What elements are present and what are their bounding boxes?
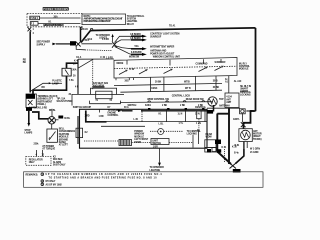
- svg-text:1: 1: [33, 29, 35, 31]
- svg-text:MOTOR: MOTOR: [253, 133, 262, 136]
- switch S4: [199, 67, 208, 72]
- module top line: [120, 90, 222, 92]
- wire main bus top: [91, 28, 256, 31]
- svg-text:A1: A1: [225, 81, 229, 84]
- svg-text:PANEL): PANEL): [38, 103, 46, 106]
- svg-text:TOP: TOP: [219, 99, 224, 101]
- svg-text:220k: 220k: [34, 143, 40, 145]
- svg-text:RELAY: RELAY: [127, 23, 135, 26]
- svg-text:CENTRAL LOCK: CENTRAL LOCK: [172, 95, 191, 98]
- svg-text:COMMAND: COMMAND: [196, 62, 208, 65]
- svg-text:K1/2: K1/2: [88, 39, 93, 41]
- svg-text:C 40: C 40: [100, 56, 105, 59]
- connector housing (hat): [92, 86, 104, 88]
- svg-text:WDW: WDW: [206, 136, 213, 139]
- wire down from junction: [51, 124, 53, 129]
- svg-text:SWITCH: SWITCH: [152, 143, 161, 145]
- svg-text:SUNROOF: SUNROOF: [215, 62, 227, 64]
- svg-text:K 81: K 81: [222, 147, 227, 149]
- svg-text:WINDOW: WINDOW: [134, 134, 145, 136]
- svg-text:LOCKING: LOCKING: [240, 94, 251, 97]
- svg-text:30: 30: [73, 76, 76, 78]
- svg-text:INSTRUMENT: INSTRUMENT: [38, 101, 53, 103]
- svg-text:AS OF MY 1992: AS OF MY 1992: [46, 183, 63, 186]
- svg-text:4 R: 4 R: [75, 85, 79, 88]
- motor M2 circle: [241, 130, 251, 140]
- svg-text:B 4x: B 4x: [234, 152, 239, 155]
- svg-text:K26 SEAT ADJ: K26 SEAT ADJ: [93, 82, 109, 85]
- svg-text:30A: 30A: [72, 69, 77, 72]
- connector X2 (left of dashed box): [28, 27, 32, 31]
- hatched box: [119, 140, 132, 146]
- svg-text:MODULE: MODULE: [134, 136, 144, 138]
- svg-text:30A: 30A: [54, 15, 58, 18]
- svg-text:4 154: 4 154: [226, 96, 232, 99]
- right bus elbow down: [244, 111, 256, 129]
- svg-text:K 30: K 30: [232, 147, 237, 149]
- dashed interior line: [114, 66, 237, 68]
- small connector box with circle: [240, 109, 246, 114]
- wire fuse output down: [80, 27, 82, 42]
- wire to relay box: [78, 58, 114, 60]
- svg-text:LAMP: LAMP: [52, 82, 59, 85]
- black connector blob: [207, 110, 213, 114]
- down arrow to interior lighting: [159, 148, 161, 162]
- svg-text:L 30: L 30: [134, 119, 139, 121]
- svg-text:MODE: MODE: [117, 63, 124, 65]
- main module box: [80, 109, 208, 148]
- svg-text:W/O SEC: W/O SEC: [53, 159, 63, 161]
- svg-text:PLASTIC: PLASTIC: [52, 80, 62, 83]
- relay module N box (upper middle): [114, 58, 237, 79]
- svg-text:K 30: K 30: [130, 69, 135, 71]
- svg-text:#1 GRN: #1 GRN: [250, 151, 259, 154]
- svg-text:4x: 4x: [225, 78, 228, 81]
- svg-text:POWER WINDOWS: POWER WINDOWS: [43, 7, 68, 11]
- svg-text:0.8 BK/RD: 0.8 BK/RD: [130, 38, 141, 40]
- arrowhead down: [27, 123, 30, 127]
- remark ref circle 1: [90, 28, 92, 30]
- wire diagonal join: [78, 59, 93, 68]
- svg-text:K26/3: K26/3: [151, 88, 158, 90]
- svg-text:BK: BK: [23, 62, 27, 64]
- remark 3: [41, 183, 44, 186]
- svg-text:1 YL: 1 YL: [179, 123, 184, 125]
- wire right bus: [255, 28, 257, 111]
- wire X1 to fan node: [81, 43, 112, 45]
- dashed to lamp: [150, 130, 158, 132]
- left motor branch: [77, 116, 79, 144]
- wire down to X: [241, 114, 243, 122]
- connector X on wire: [241, 122, 246, 127]
- svg-text:L BL: L BL: [159, 124, 165, 126]
- svg-text:K1 A: K1 A: [76, 56, 81, 59]
- remarks box: [24, 172, 263, 188]
- svg-text:TO STARTING AND A BRANCH AND F: TO STARTING AND A BRANCH AND FUSE ENTERI…: [49, 176, 158, 179]
- svg-text:OVERVOLTAGE PROTECTION RELAY: OVERVOLTAGE PROTECTION RELAY: [43, 24, 65, 27]
- svg-text:WT/B: WT/B: [184, 81, 190, 83]
- svg-text:COURTESY LIGHT SYSTEM: COURTESY LIGHT SYSTEM: [150, 33, 179, 35]
- wire fan ray 1: [115, 36, 132, 42]
- svg-text:7.5A: 7.5A: [69, 79, 74, 82]
- wire fuse F3 down: [33, 76, 67, 94]
- svg-text:(BEHIND LEFT: (BEHIND LEFT: [38, 99, 54, 101]
- relay K2 box: [47, 129, 58, 142]
- svg-text:LOCKING: LOCKING: [187, 134, 198, 136]
- wire branch to fuse F3: [67, 63, 79, 68]
- lamp circle: [158, 129, 164, 135]
- svg-text:30 BK: 30 BK: [155, 82, 162, 84]
- svg-text:0.8 BK/RD: 0.8 BK/RD: [131, 52, 142, 54]
- connector X in block: [28, 100, 33, 105]
- notes box: [82, 14, 126, 24]
- svg-text:FUSE 1: FUSE 1: [30, 18, 39, 20]
- dividers: [141, 109, 143, 121]
- small box on branch: [76, 128, 83, 137]
- svg-text:LIMIT: LIMIT: [152, 140, 158, 142]
- svg-text:TIP: 15A: TIP: 15A: [57, 98, 66, 101]
- svg-text:2 BK: 2 BK: [162, 105, 167, 107]
- bus line mid: [114, 83, 222, 85]
- svg-text:1L N: 1L N: [178, 114, 183, 116]
- svg-text:2 BK: 2 BK: [180, 105, 185, 107]
- terminal 30 black box: [70, 41, 76, 45]
- arrowhead up: [111, 34, 113, 37]
- svg-text:30 BK: 30 BK: [213, 87, 220, 89]
- right extension line: [207, 107, 240, 109]
- svg-text:TO ELECTRICAL: TO ELECTRICAL: [127, 15, 145, 18]
- svg-text:CONTROL: CONTROL: [108, 115, 120, 117]
- svg-text:LAMPS: LAMPS: [25, 132, 33, 135]
- svg-text:RD BL: RD BL: [49, 110, 56, 112]
- wire diagonal from trunk: [30, 83, 49, 91]
- svg-text:WINDOW CONTROL UNIT: WINDOW CONTROL UNIT: [153, 57, 181, 59]
- terminal block X30: [26, 94, 36, 108]
- svg-text:POWER SEAT ADJUST: POWER SEAT ADJUST: [150, 53, 175, 56]
- pin stubs row2: [150, 85, 152, 92]
- svg-text:GN/YL: GN/YL: [233, 119, 240, 121]
- connector fan node X: [112, 42, 117, 48]
- svg-text:1 RD: 1 RD: [85, 116, 90, 118]
- pin stubs below module: [133, 78, 135, 80]
- ground point connector: [230, 163, 237, 169]
- svg-text:STOP: STOP: [25, 130, 32, 132]
- thick feed down into module: [86, 111, 107, 122]
- svg-text:CONVENIENCE: CONVENIENCE: [59, 131, 76, 133]
- svg-text:30G: 30G: [125, 81, 129, 83]
- svg-text:AT POWER: AT POWER: [42, 145, 54, 148]
- wire branch arrow left (backup lamps): [52, 82, 63, 84]
- wire up from junction: [51, 109, 53, 117]
- svg-text:REAR DOOR SW: REAR DOOR SW: [186, 98, 205, 101]
- svg-text:NOTE:: NOTE:: [84, 15, 91, 18]
- svg-text:1 BR: 1 BR: [153, 147, 158, 149]
- antenna motor box: [239, 129, 252, 142]
- pin stubs: [36, 150, 38, 157]
- svg-text:MY ONLY: MY ONLY: [46, 181, 56, 183]
- switch S5: [215, 66, 224, 71]
- svg-text:TO INTERIOR: TO INTERIOR: [96, 35, 111, 37]
- svg-text:W 1 GRN: W 1 GRN: [250, 148, 260, 151]
- connector bumps: [148, 101, 151, 102]
- svg-text:A WITH POWER WINDOW AND DOOR: A WITH POWER WINDOW AND DOOR LOCK UNIT: [84, 18, 124, 21]
- dashed bottom lines: [84, 140, 119, 142]
- svg-text:ANTENNA AND: ANTENNA AND: [150, 49, 167, 52]
- svg-text:AT LEFT: AT LEFT: [59, 144, 69, 147]
- svg-text:LIGHTS: LIGHTS: [99, 38, 108, 40]
- svg-text:SUNROOF: SUNROOF: [150, 37, 162, 39]
- dashed vertical: [92, 59, 94, 89]
- antenna amplifier box: [225, 93, 239, 108]
- svg-text:WDW CONTROL SW: WDW CONTROL SW: [147, 99, 169, 101]
- arrow 2: [131, 39, 142, 41]
- wire down to stop lamps: [28, 111, 30, 123]
- node K1/4 marker: [81, 28, 83, 30]
- svg-text:CONTROL: CONTROL: [239, 66, 251, 68]
- svg-text:K2: K2: [53, 157, 57, 159]
- wire to circuit 15 with left arrow: [56, 43, 70, 45]
- pins on module top: [148, 108, 150, 110]
- svg-text:AMP: AMP: [226, 101, 231, 104]
- svg-text:ANT: ANT: [226, 98, 231, 101]
- wire feed left column: [77, 59, 79, 94]
- svg-text:REGULATOR: REGULATOR: [29, 159, 43, 162]
- svg-text:MODULE: MODULE: [59, 137, 69, 139]
- tick: [99, 109, 101, 112]
- fuse F3 box: [62, 68, 71, 76]
- switch S3: [164, 69, 173, 74]
- svg-text:ML RLY IN: ML RLY IN: [240, 86, 251, 88]
- arrow 4: [131, 53, 142, 55]
- dashed stub right of module: [224, 149, 226, 162]
- svg-text:ML RLY: ML RLY: [239, 63, 248, 65]
- fuse f1 box: [30, 16, 40, 20]
- remark 2: [41, 180, 44, 183]
- wire fuse row1: [40, 17, 81, 19]
- wire bus under central lock: [120, 101, 213, 104]
- svg-text:1 RD: 1 RD: [99, 116, 104, 118]
- svg-text:K1: K1: [159, 114, 163, 116]
- inner horizontal line: [95, 121, 207, 123]
- switch S2: [139, 70, 148, 75]
- svg-text:K1/4: K1/4: [83, 28, 88, 31]
- svg-text:FEATURE: FEATURE: [59, 133, 70, 136]
- svg-text:TRUNK): TRUNK): [253, 139, 262, 141]
- svg-text:22 N: 22 N: [195, 113, 200, 115]
- svg-text:K7: K7: [108, 107, 112, 109]
- svg-text:WT B: WT B: [185, 88, 191, 90]
- wire fan ray 3: [115, 46, 132, 49]
- feed arrow inside module: [118, 110, 122, 112]
- fuse f2 box: [30, 22, 38, 26]
- svg-text:SWITCH: SWITCH: [128, 105, 137, 107]
- svg-text:UP TO CHASSIS END NUMBERS 1B 2: UP TO CHASSIS END NUMBERS 1B 223825 AND …: [46, 173, 163, 176]
- wire main bus diagonal: [81, 31, 91, 43]
- svg-text:AL A10: AL A10: [234, 80, 242, 83]
- svg-text:SUBT ONLY: SUBT ONLY: [53, 165, 66, 167]
- svg-text:1.5 RD: 1.5 RD: [106, 57, 113, 59]
- regulator dashed box: [26, 157, 51, 166]
- wires below motor: [243, 142, 245, 150]
- wire fan ray 2: [115, 40, 132, 44]
- ground label black: [233, 169, 241, 173]
- svg-text:SEE POWER: SEE POWER: [37, 42, 51, 44]
- svg-text:RD/GN: RD/GN: [247, 110, 255, 113]
- svg-text:B WITH CENTRAL LOCKING PUMP: B WITH CENTRAL LOCKING PUMP: [84, 20, 112, 23]
- fuse box F1 dashed enclosure: [27, 14, 82, 27]
- svg-text:50A: 50A: [135, 45, 139, 48]
- svg-text:AND WDW: AND WDW: [93, 85, 105, 88]
- limit switch box: [151, 139, 169, 145]
- svg-text:SMART: SMART: [240, 88, 249, 91]
- wire vert: [228, 76, 230, 93]
- switch S1: [119, 70, 128, 75]
- svg-text:30 B: 30 B: [213, 80, 218, 82]
- svg-text:INTERMITTENT WIPER: INTERMITTENT WIPER: [150, 47, 175, 49]
- svg-text:2 BK: 2 BK: [198, 105, 203, 107]
- wire thick L to junction: [32, 112, 48, 119]
- svg-text:CONTR: CONTR: [240, 91, 248, 93]
- component inside module: [197, 111, 201, 119]
- svg-text:TERMINAL BLOCK: TERMINAL BLOCK: [38, 95, 58, 98]
- connector X1: [76, 42, 81, 47]
- svg-text:ALARM: ALARM: [53, 161, 61, 164]
- svg-text:RD: RD: [42, 87, 46, 89]
- thick wire pair down: [216, 114, 218, 152]
- arrow 3: [131, 48, 142, 50]
- pins: [95, 99, 97, 101]
- terminal 15 black blob: [26, 107, 32, 111]
- title black box: [43, 7, 69, 10]
- svg-text:SUPPLY: SUPPLY: [37, 44, 46, 46]
- wire small vert: [198, 119, 200, 131]
- svg-text:TO INTERIOR: TO INTERIOR: [150, 167, 165, 169]
- svg-text:WDW SW: WDW SW: [129, 56, 140, 58]
- wire down left of hat: [71, 94, 73, 105]
- svg-text:MODULE: MODULE: [239, 69, 249, 71]
- remark 1 circle: [41, 173, 44, 176]
- wire left trunk: [29, 31, 31, 92]
- svg-text:30: 30: [69, 94, 72, 96]
- svg-text:(RIGHT: (RIGHT: [253, 136, 261, 138]
- arrowhead left: [52, 43, 56, 46]
- terminal black blob: [58, 116, 63, 119]
- svg-text:SOLN SYSTEM: SOLN SYSTEM: [57, 101, 73, 103]
- wire fuse row2: [38, 23, 81, 25]
- svg-text:BELL: BELL: [59, 129, 65, 131]
- svg-text:4: 4: [111, 99, 113, 102]
- thick feed down vertical: [213, 105, 215, 112]
- motor M1 circle (central locking): [208, 97, 217, 106]
- svg-text:K2: K2: [85, 132, 89, 134]
- svg-text:(BEHIND: (BEHIND: [59, 139, 69, 141]
- wire right from junction: [55, 119, 58, 121]
- svg-text:K26/1: K26/1: [145, 105, 152, 107]
- svg-text:ONLY: ONLY: [29, 162, 35, 164]
- svg-text:DASH): DASH): [59, 141, 66, 144]
- svg-text:TO A1: TO A1: [169, 24, 176, 27]
- arrow 1: [131, 35, 142, 37]
- svg-text:4: 4: [33, 32, 35, 35]
- wire fan ray 4: [115, 47, 132, 55]
- small box right module bottom: [212, 148, 216, 152]
- junction circle connector: [48, 117, 55, 124]
- terminal block black bar: [26, 94, 35, 99]
- vertical line right in module: [192, 135, 194, 148]
- svg-text:0.8 BK/RD: 0.8 BK/RD: [130, 34, 141, 36]
- svg-text:REMARKS:: REMARKS:: [26, 173, 39, 176]
- svg-text:30 BL: 30 BL: [64, 118, 71, 120]
- svg-text:POWER: POWER: [134, 131, 143, 133]
- svg-text:LEFT FRONT: LEFT FRONT: [134, 139, 148, 141]
- pin stub 30G: [115, 78, 117, 80]
- svg-text:AT TORQUE: AT TORQUE: [42, 148, 55, 151]
- svg-text:1: 1: [97, 100, 99, 102]
- wire X1 lower branch: [76, 46, 85, 50]
